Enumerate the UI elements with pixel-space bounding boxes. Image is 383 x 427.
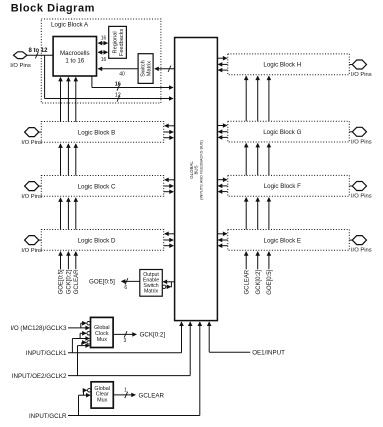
svg-text:Logic Block G: Logic Block G — [263, 129, 301, 136]
svg-text:Logic Block B: Logic Block B — [78, 129, 116, 136]
svg-text:GCK[0:2]: GCK[0:2] — [67, 269, 73, 294]
svg-text:16: 16 — [115, 82, 121, 88]
svg-text:Logic Block E: Logic Block E — [264, 237, 302, 244]
svg-text:Feedbacks: Feedbacks — [119, 29, 125, 57]
svg-text:(INPUTS AND FEEDBACKS BUS): (INPUTS AND FEEDBACKS BUS) — [199, 139, 204, 199]
svg-text:I/O Pins: I/O Pins — [10, 63, 31, 69]
svg-text:I/O Pins: I/O Pins — [21, 194, 42, 200]
svg-text:1: 1 — [124, 388, 127, 394]
svg-text:GCLEAR: GCLEAR — [139, 392, 165, 399]
svg-text:GCK[0:2]: GCK[0:2] — [140, 332, 166, 339]
svg-text:GOE[0:5]: GOE[0:5] — [267, 269, 273, 294]
svg-text:Mux: Mux — [97, 337, 107, 343]
svg-text:I/O Pins: I/O Pins — [21, 248, 42, 254]
svg-text:OE1/INPUT: OE1/INPUT — [252, 350, 285, 357]
svg-text:I/O Pins: I/O Pins — [21, 140, 42, 146]
svg-text:GCK[0:2]: GCK[0:2] — [256, 270, 262, 295]
svg-text:INPUT/GCLR: INPUT/GCLR — [29, 413, 67, 420]
svg-text:GOE[0:5]: GOE[0:5] — [59, 269, 65, 294]
svg-text:12: 12 — [115, 92, 121, 98]
svg-text:GOE[0:5]: GOE[0:5] — [89, 279, 115, 286]
svg-text:GCLEAR: GCLEAR — [74, 269, 80, 294]
svg-text:I/O (MC128)/GCLK3: I/O (MC128)/GCLK3 — [10, 325, 67, 332]
svg-text:Logic Block H: Logic Block H — [263, 62, 301, 69]
svg-text:Matrix: Matrix — [144, 288, 159, 294]
svg-text:GCLEAR: GCLEAR — [244, 269, 250, 294]
svg-text:Logic Block A: Logic Block A — [51, 21, 89, 28]
svg-text:Mux: Mux — [97, 398, 107, 404]
svg-text:I/O Pins: I/O Pins — [351, 139, 372, 145]
svg-text:16: 16 — [101, 57, 107, 63]
svg-text:Logic Block D: Logic Block D — [78, 237, 116, 244]
svg-text:8 to 12: 8 to 12 — [28, 48, 48, 54]
svg-text:I/O Pins: I/O Pins — [351, 72, 372, 78]
svg-text:INPUT/GCLK1: INPUT/GCLK1 — [26, 350, 67, 357]
svg-text:Block Diagram: Block Diagram — [11, 2, 95, 14]
svg-text:40: 40 — [119, 71, 125, 77]
svg-text:INPUT/OE2/GCLK2: INPUT/OE2/GCLK2 — [12, 373, 67, 380]
svg-text:1 to 16: 1 to 16 — [65, 57, 84, 64]
svg-text:Regional: Regional — [112, 31, 118, 53]
svg-text:Macrocells: Macrocells — [60, 50, 90, 57]
svg-text:Matrix: Matrix — [146, 61, 152, 76]
svg-text:I/O Pins: I/O Pins — [351, 194, 372, 200]
svg-text:I/O Pins: I/O Pins — [351, 248, 372, 254]
svg-text:Logic Block F: Logic Block F — [264, 183, 301, 190]
svg-text:3: 3 — [124, 338, 127, 344]
svg-text:6: 6 — [124, 285, 127, 291]
svg-text:Logic Block C: Logic Block C — [78, 183, 116, 190]
svg-text:16: 16 — [101, 35, 107, 41]
